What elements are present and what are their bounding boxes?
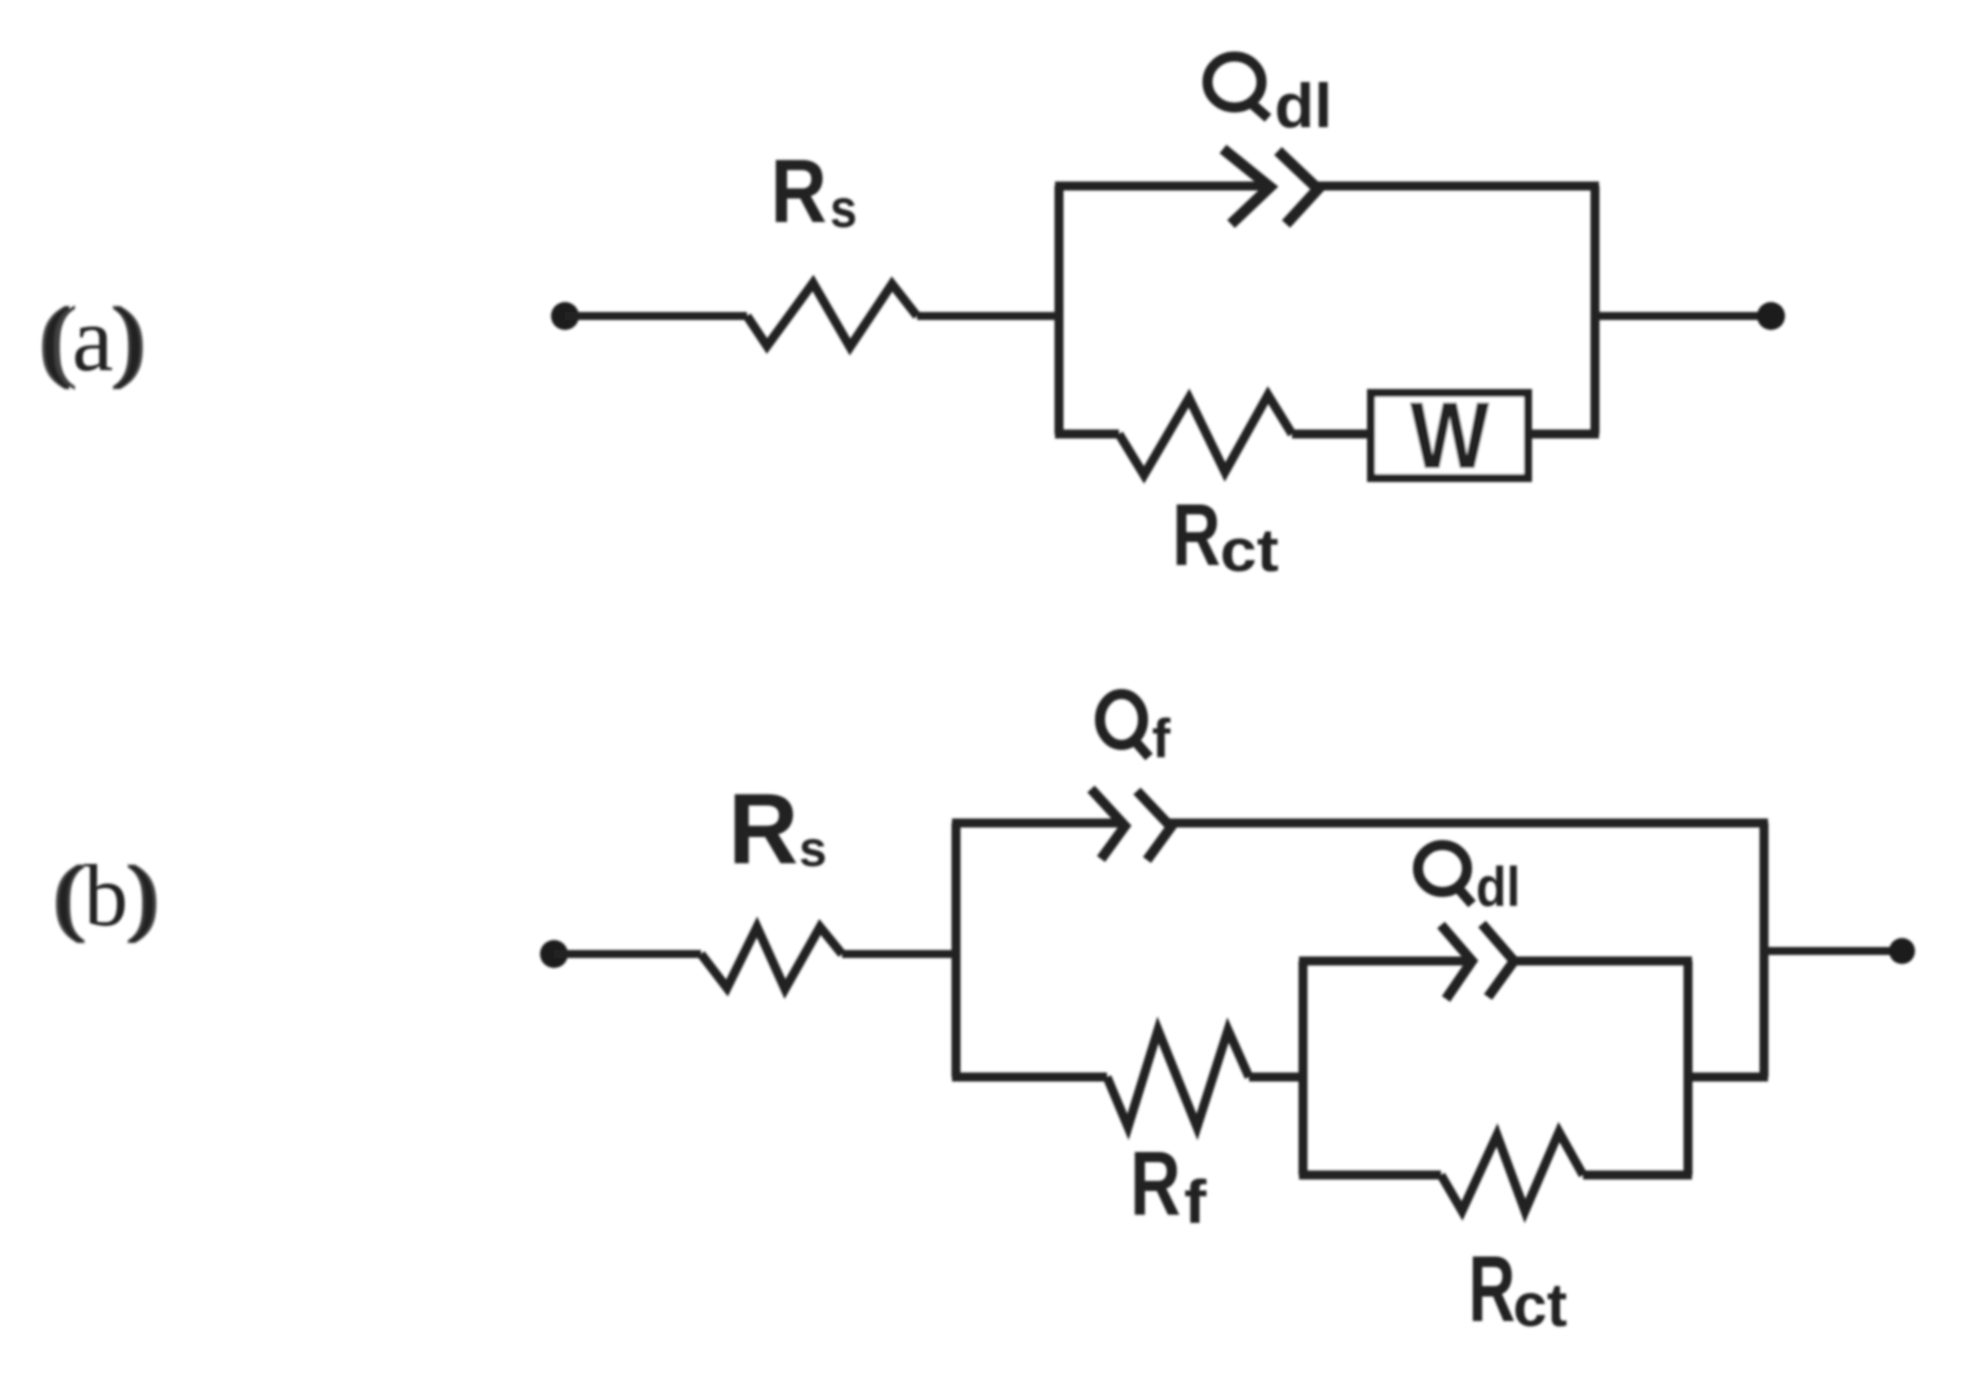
- label (b): [52, 848, 160, 945]
- wire: [554, 950, 701, 958]
- svg-text:): ): [128, 848, 157, 945]
- label Qf (b): [1100, 694, 1171, 769]
- output wire (b): [1764, 947, 1902, 955]
- wire: [917, 312, 1063, 320]
- resistor Rct (b): [1441, 1132, 1583, 1211]
- CPE Qdl (a): [1223, 149, 1318, 224]
- label Rct (b): [1469, 1237, 1568, 1342]
- terminal node right (b): [1889, 938, 1915, 964]
- svg-text:s: s: [830, 178, 857, 239]
- resistor Rs (b): [701, 927, 842, 989]
- svg-text:(: (: [41, 288, 72, 391]
- wire bottom branch left (a): [1055, 430, 1119, 439]
- Warburg element W (a): [1371, 383, 1528, 489]
- wire: [1249, 1073, 1303, 1082]
- terminal node left (b): [540, 940, 568, 968]
- terminal node left (a): [551, 302, 579, 330]
- output wire (a): [1595, 312, 1771, 320]
- wire inner bottom branch right (b): [1583, 1171, 1692, 1180]
- wire left edge of outer box (b): [952, 823, 961, 1077]
- svg-text:(: (: [55, 848, 84, 945]
- svg-text:a: a: [72, 288, 113, 391]
- svg-text:R: R: [1130, 1133, 1181, 1235]
- wire: [1528, 430, 1599, 439]
- label Rf (b): [1130, 1133, 1207, 1236]
- wire: [1292, 430, 1371, 439]
- svg-text:R: R: [1469, 1237, 1516, 1342]
- label (a): [38, 288, 147, 391]
- node junction left of parallel box (a): [1055, 186, 1064, 434]
- label Rs (b): [728, 773, 827, 885]
- label Qdl (b): [1418, 845, 1520, 919]
- wire right edge of inner box (b): [1684, 961, 1693, 1175]
- wire mid branch inner-right to outer-right (b): [1688, 1073, 1768, 1082]
- wire top branch right (a): [1317, 182, 1599, 191]
- resistor Rs (a): [747, 283, 917, 347]
- svg-text:R: R: [1172, 485, 1220, 584]
- wire left edge of inner box (b): [1299, 961, 1308, 1175]
- svg-text:ct: ct: [1513, 1271, 1567, 1339]
- CPE Qf (b): [1091, 789, 1171, 860]
- wire right edge of outer box (b): [1760, 823, 1769, 1077]
- label Rs (a): [771, 141, 857, 242]
- svg-text:R: R: [728, 773, 798, 885]
- terminal node right (a): [1757, 302, 1785, 330]
- svg-text:): ): [113, 288, 144, 391]
- wire: [842, 950, 960, 958]
- svg-text:dl: dl: [1476, 856, 1520, 918]
- svg-text:b: b: [84, 848, 128, 945]
- wire top branch left (a): [1055, 182, 1264, 191]
- resistor Rct (a): [1119, 395, 1292, 475]
- label Qdl (a): [1208, 57, 1333, 141]
- svg-text:s: s: [799, 821, 827, 877]
- wire top branch right (b): [1170, 819, 1768, 828]
- svg-text:dl: dl: [1275, 71, 1333, 140]
- label Rct (a): [1172, 485, 1278, 584]
- svg-text:ct: ct: [1220, 518, 1279, 585]
- svg-text:R: R: [771, 141, 827, 242]
- svg-text:W: W: [1410, 383, 1490, 489]
- wire inner bottom branch left (b): [1299, 1171, 1441, 1180]
- wire: [565, 312, 747, 320]
- svg-text:f: f: [1152, 707, 1171, 769]
- wire inner top branch right (b): [1513, 957, 1692, 966]
- wire top branch left (b): [952, 819, 1119, 828]
- CPE Qdl (b): [1441, 924, 1514, 999]
- wire right edge of parallel box (a): [1591, 186, 1600, 434]
- wire inner top branch left (b): [1299, 957, 1467, 966]
- resistor Rf (b): [1107, 1030, 1249, 1127]
- svg-text:f: f: [1184, 1168, 1207, 1236]
- wire bottom branch left (b): [952, 1073, 1107, 1082]
